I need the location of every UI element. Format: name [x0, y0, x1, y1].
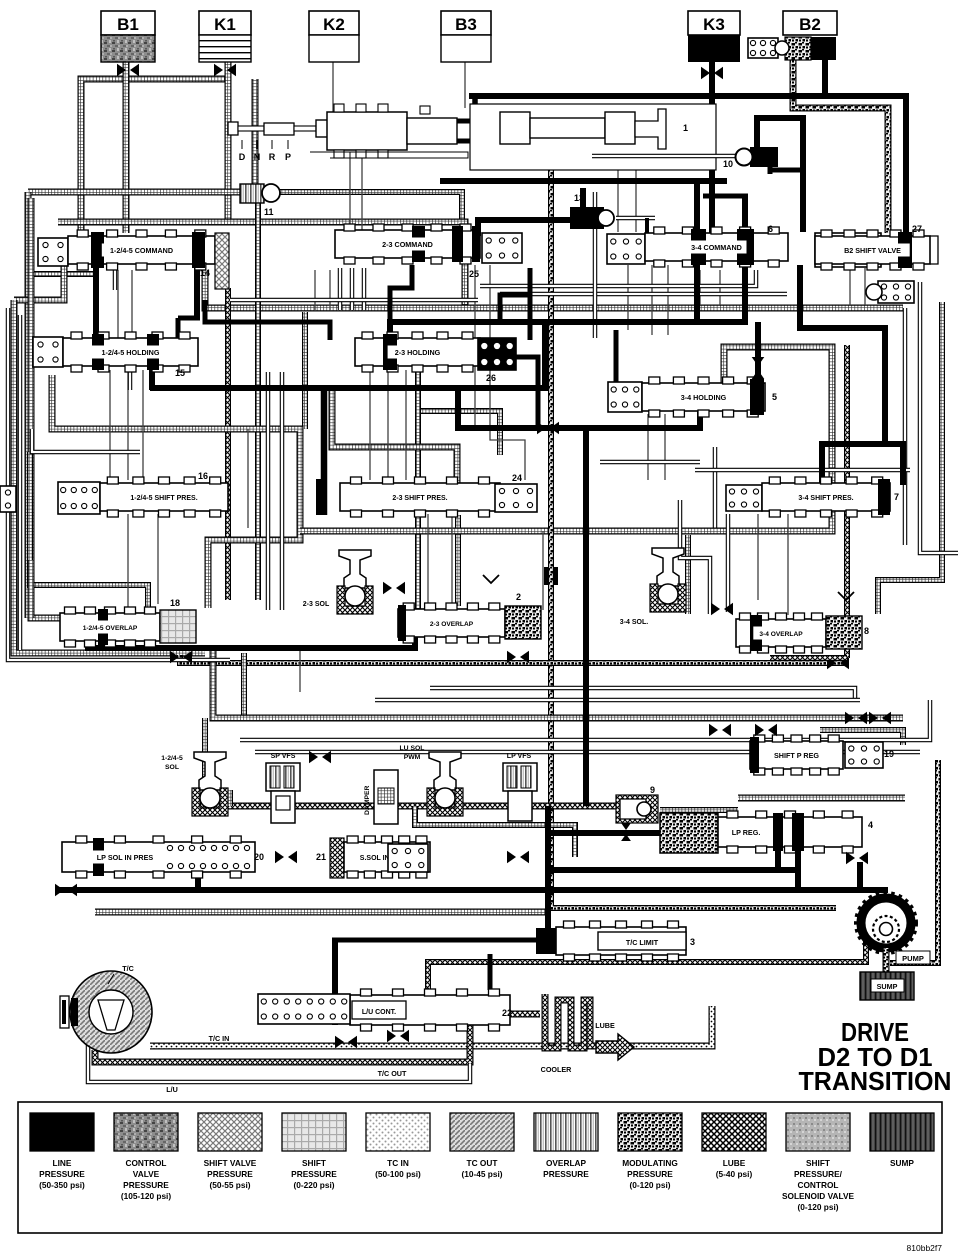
wire rope bottom y912 — [95, 909, 545, 916]
svg-text:LUBE: LUBE — [723, 1158, 746, 1168]
valve 2-3 OVERLAP 2 — [383, 575, 541, 663]
check valve 13 — [570, 193, 614, 229]
svg-text:PRESSURE: PRESSURE — [627, 1169, 673, 1179]
wire line pump vert — [857, 862, 863, 890]
valve LP SOL IN PRES 20 — [62, 836, 297, 878]
svg-text:SOL: SOL — [165, 764, 179, 771]
svg-text:3-4 SHIFT PRES.: 3-4 SHIFT PRES. — [798, 495, 853, 502]
wire line item13 up — [580, 188, 586, 207]
svg-text:3: 3 — [690, 937, 695, 947]
wire line right col — [903, 93, 909, 262]
doc number — [907, 1243, 943, 1253]
svg-text:TRANSITION: TRANSITION — [799, 1068, 952, 1096]
brake B1 — [101, 11, 155, 76]
svg-text:14: 14 — [200, 268, 210, 278]
wire line lp20 drop — [195, 846, 201, 893]
sump — [860, 972, 914, 1000]
svg-text:P: P — [285, 152, 291, 162]
solenoid SP VFS — [266, 751, 331, 823]
svg-text:1-2/4-5 COMMAND: 1-2/4-5 COMMAND — [110, 246, 173, 255]
svg-text:(5-40 psi): (5-40 psi) — [716, 1169, 753, 1179]
svg-text:CONTROL: CONTROL — [125, 1158, 166, 1168]
svg-text:DAMPER: DAMPER — [364, 785, 371, 815]
wire control-pressure x31 col — [31, 198, 60, 618]
svg-text:8: 8 — [864, 626, 869, 636]
svg-text:1-2/4-5: 1-2/4-5 — [161, 755, 183, 762]
wire line hold15 caps — [205, 300, 330, 340]
svg-text:3-4 SOL.: 3-4 SOL. — [620, 619, 648, 626]
wire line hold26-y421 — [497, 357, 538, 428]
svg-text:2-3 COMMAND: 2-3 COMMAND — [382, 240, 433, 249]
svg-text:SOLENOID VALVE: SOLENOID VALVE — [782, 1191, 855, 1201]
wire rope y806 solenoid channel — [200, 803, 640, 810]
wire line y421 run — [458, 388, 703, 431]
svg-text:SHIFT VALVE: SHIFT VALVE — [204, 1158, 257, 1168]
svg-text:2-3 OVERLAP: 2-3 OVERLAP — [430, 621, 474, 628]
svg-text:10: 10 — [723, 159, 733, 169]
wire modulating B2 drop — [793, 60, 888, 233]
svg-text:SUMP: SUMP — [877, 982, 898, 991]
svg-text:TC OUT: TC OUT — [467, 1158, 498, 1168]
svg-text:N: N — [254, 152, 261, 162]
svg-text:LP VFS: LP VFS — [507, 753, 532, 760]
solenoid LP VFS — [503, 753, 537, 821]
svg-text:VALVE: VALVE — [133, 1169, 160, 1179]
svg-text:PUMP: PUMP — [902, 954, 924, 963]
wire line hold34 left feed — [614, 330, 619, 384]
wire control-pressure y192 run — [28, 192, 462, 220]
wire control-pressure x305 col — [302, 312, 308, 429]
wire control-pressure ov18 feed — [28, 560, 35, 618]
wire control-pressure hatch col x228 — [225, 288, 231, 600]
wire tc-out — [95, 1014, 540, 1062]
wire control-pressure x14 col — [14, 252, 205, 653]
svg-text:DRIVE: DRIVE — [841, 1019, 909, 1047]
svg-text:SHIFT: SHIFT — [806, 1158, 830, 1168]
junction block x551 — [544, 567, 558, 585]
wire line cmd14 left — [93, 237, 99, 340]
wire control-pressure B1-K1 manifold — [81, 62, 255, 236]
wire line lpreg drops — [778, 851, 798, 890]
label L/U — [166, 1085, 178, 1094]
restrictor speckle y663 — [827, 657, 849, 670]
wire control-pressure x458 col — [455, 515, 461, 606]
check valve 9 — [616, 785, 658, 841]
wire line y833 lpreg — [545, 830, 660, 836]
valve 3-4 SHIFT PRES 7 — [726, 477, 899, 517]
accumulator 11 — [240, 184, 280, 217]
svg-text:18: 18 — [170, 598, 180, 608]
wire line cmd6 v3 — [797, 265, 803, 325]
label T/C IN — [209, 1034, 230, 1043]
wire line hold26 cap — [390, 265, 412, 340]
wire line y196 link — [703, 194, 748, 199]
valve LP REG 4 — [660, 811, 873, 864]
svg-text:(105-120 psi): (105-120 psi) — [121, 1191, 172, 1201]
restrictor y421 — [537, 422, 559, 435]
wire line shift16 stub — [321, 385, 328, 515]
valve 1-2/4-5 SHIFT PRES 16 — [58, 471, 326, 517]
svg-text:20: 20 — [254, 852, 264, 862]
svg-text:27: 27 — [912, 224, 922, 234]
svg-text:SHIFT P REG: SHIFT P REG — [774, 751, 819, 760]
svg-text:LU SOL: LU SOL — [400, 745, 425, 752]
wire line hold26 right feed — [500, 268, 530, 340]
svg-text:2-3 HOLDING: 2-3 HOLDING — [395, 348, 441, 357]
valve 1-2/4-5 COMMAND 14 — [38, 230, 229, 289]
valve 3-4 OVERLAP 8 — [711, 592, 891, 724]
solenoid 2-3 SOL — [303, 550, 373, 614]
svg-text:4: 4 — [868, 820, 873, 830]
svg-text:3-4 COMMAND: 3-4 COMMAND — [691, 243, 742, 252]
valve 1-2/4-5 OVERLAP 18 — [60, 598, 196, 663]
wire line y890 long — [57, 887, 888, 893]
wire control-pressure shift24 feed — [332, 385, 457, 483]
wire rope y718 long — [213, 645, 903, 718]
wire line hold15 right — [152, 233, 200, 390]
svg-text:26: 26 — [486, 373, 496, 383]
wire line y322 main — [392, 319, 748, 325]
svg-text:22: 22 — [502, 1008, 512, 1018]
svg-text:OVERLAP: OVERLAP — [546, 1158, 587, 1168]
wire line valve1 top — [469, 93, 908, 99]
svg-text:25: 25 — [469, 269, 479, 279]
svg-text:13: 13 — [574, 193, 584, 203]
svg-text:SP VFS: SP VFS — [271, 753, 296, 760]
wire lube right col x847 — [844, 345, 850, 658]
wire control-pressure y429 run — [52, 375, 300, 608]
svg-text:1-2/4-5 OVERLAP: 1-2/4-5 OVERLAP — [83, 625, 138, 632]
wire rope spreg feed — [660, 798, 905, 810]
wire line 22 right drop — [488, 954, 493, 990]
wire tc feed right — [428, 938, 866, 1000]
wire line y388 run — [150, 385, 545, 391]
svg-text:SHIFT: SHIFT — [302, 1158, 326, 1168]
svg-text:L/U CONT.: L/U CONT. — [362, 1009, 396, 1016]
connector 19b — [866, 281, 914, 303]
svg-text:6: 6 — [768, 224, 773, 234]
svg-text:2: 2 — [516, 592, 521, 602]
svg-text:K1: K1 — [214, 15, 236, 34]
wire line valve1 right — [697, 62, 712, 322]
wire thin gray bundle — [96, 62, 865, 692]
svg-text:(0-120 psi): (0-120 psi) — [797, 1202, 838, 1212]
restrictor y890 — [55, 884, 77, 897]
damper — [364, 770, 398, 824]
svg-text:B2 SHIFT VALVE: B2 SHIFT VALVE — [844, 246, 901, 255]
wire line cmd6 v2 — [647, 194, 745, 319]
connector left edge — [0, 486, 16, 512]
svg-text:9: 9 — [650, 785, 655, 795]
wire line center-bot1 — [545, 806, 551, 930]
svg-text:PRESSURE: PRESSURE — [123, 1180, 169, 1190]
title — [799, 1019, 952, 1096]
svg-text:T/C IN: T/C IN — [209, 1034, 230, 1043]
wire lu pipe — [88, 1040, 470, 1082]
svg-text:16: 16 — [198, 471, 208, 481]
clutch K1 — [199, 11, 251, 76]
svg-text:1: 1 — [683, 123, 688, 133]
svg-text:PRESSURE: PRESSURE — [291, 1169, 337, 1179]
wire control-pressure y411 — [418, 411, 500, 455]
svg-text:2-3 SOL: 2-3 SOL — [303, 601, 330, 608]
svg-text:(10-45 psi): (10-45 psi) — [461, 1169, 502, 1179]
svg-text:LP REG.: LP REG. — [732, 828, 761, 837]
svg-text:T/C: T/C — [122, 964, 134, 973]
wire control-pressure x688 col — [685, 535, 691, 614]
svg-text:D: D — [239, 152, 246, 162]
wire line lucont — [332, 938, 548, 1025]
wire control-pressure x418 col — [415, 372, 421, 630]
wire line right web — [797, 325, 905, 485]
svg-text:2-3 SHIFT PRES.: 2-3 SHIFT PRES. — [392, 495, 447, 502]
svg-text:19: 19 — [884, 749, 894, 759]
wire line center col — [583, 428, 589, 806]
wire modulating center col x551 — [551, 145, 836, 908]
legend — [18, 1102, 942, 1233]
svg-text:11: 11 — [264, 207, 274, 217]
svg-text:21: 21 — [316, 852, 326, 862]
svg-text:1-2/4-5 SHIFT PRES.: 1-2/4-5 SHIFT PRES. — [130, 495, 197, 502]
wire control-pressure left low loop — [30, 452, 148, 610]
valve B2 SHIFT VALVE 27 — [815, 224, 938, 270]
solenoid 3-4 SOL — [620, 548, 686, 626]
svg-text:K3: K3 — [703, 15, 725, 34]
wire line item13 left — [478, 220, 577, 236]
clutch K3 — [688, 11, 740, 79]
valve 2-3 SHIFT PRES 24 — [340, 473, 537, 517]
svg-text:LUBE: LUBE — [595, 1021, 615, 1030]
wire lube y658 — [770, 655, 847, 661]
svg-text:(0-220 psi): (0-220 psi) — [293, 1180, 334, 1190]
wire tc-in — [150, 1006, 712, 1046]
wire line valve1 left — [452, 99, 475, 146]
wire white-pipe bundle — [8, 192, 958, 752]
lube arrow — [595, 1021, 634, 1060]
wire control-pressure y274 stub — [31, 271, 95, 277]
valve 2-3 HOLDING 26 — [355, 332, 516, 383]
svg-text:3-4 HOLDING: 3-4 HOLDING — [681, 393, 727, 402]
svg-text:T/C OUT: T/C OUT — [378, 1069, 407, 1078]
restrictor valve1 — [480, 149, 502, 162]
valve 3-4 COMMAND 6 — [607, 224, 788, 267]
svg-text:PRESSURE/: PRESSURE/ — [794, 1169, 843, 1179]
wire control-pressure right col x942 — [878, 302, 942, 614]
svg-text:7: 7 — [894, 492, 899, 502]
svg-text:3-4 OVERLAP: 3-4 OVERLAP — [759, 631, 803, 638]
wire rope sol drops — [230, 790, 575, 857]
svg-text:CONTROL: CONTROL — [797, 1180, 838, 1190]
valve 1-2/4-5 HOLDING 15 — [33, 332, 198, 378]
svg-text:PRESSURE: PRESSURE — [543, 1169, 589, 1179]
svg-text:LINE: LINE — [53, 1158, 72, 1168]
svg-text:LP SOL IN PRES: LP SOL IN PRES — [97, 853, 154, 862]
solenoid LU SOL PWM — [400, 745, 463, 816]
gate labels DNRP — [239, 140, 291, 162]
torque converter T/C — [60, 964, 152, 1053]
svg-text:PWM: PWM — [404, 754, 421, 761]
svg-text:1-2/4-5 HOLDING: 1-2/4-5 HOLDING — [102, 348, 160, 357]
label T/C OUT — [378, 1069, 407, 1078]
wire rope y730 segment — [820, 730, 903, 745]
wire line ov18 land — [100, 640, 106, 648]
svg-text:T/C LIMIT: T/C LIMIT — [626, 938, 659, 947]
brake B2 — [783, 11, 837, 60]
wire control-pressure y533 long — [300, 347, 832, 531]
svg-text:5: 5 — [772, 392, 777, 402]
wire line hold34 right — [755, 322, 761, 383]
valve S.SOL IN P 21 — [316, 836, 529, 878]
valve 2-3 COMMAND 25 — [335, 224, 522, 279]
svg-text:SUMP: SUMP — [890, 1158, 914, 1168]
svg-text:B2: B2 — [799, 15, 821, 34]
svg-text:(50-350 psi): (50-350 psi) — [39, 1180, 85, 1190]
connector B2 sensor — [748, 38, 789, 58]
valve L/U CONT 22 — [258, 989, 512, 1048]
svg-text:K2: K2 — [323, 15, 345, 34]
wire rope channel feed — [202, 718, 208, 806]
brake B3 — [441, 11, 491, 62]
svg-text:B1: B1 — [117, 15, 139, 34]
svg-text:810bb2f7: 810bb2f7 — [907, 1243, 943, 1253]
valve SHIFT P REG 19 — [709, 724, 894, 775]
svg-text:B3: B3 — [455, 15, 477, 34]
svg-text:(50-55 psi): (50-55 psi) — [209, 1180, 250, 1190]
svg-text:(50-100 psi): (50-100 psi) — [375, 1169, 421, 1179]
svg-text:15: 15 — [175, 368, 185, 378]
wire line y870 — [545, 867, 798, 873]
wire line ov row feed — [88, 632, 415, 648]
wire line B2 drop — [822, 60, 828, 94]
check valve 10 — [592, 115, 803, 232]
svg-text:TC IN: TC IN — [387, 1158, 409, 1168]
svg-text:L/U: L/U — [166, 1085, 178, 1094]
wire control-pressure valve14 roof — [58, 222, 465, 308]
wire control-pressure left col x28 — [25, 192, 32, 618]
sump riser — [883, 948, 890, 974]
valve 3-4 HOLDING 5 — [608, 357, 777, 417]
svg-text:PRESSURE: PRESSURE — [207, 1169, 253, 1179]
svg-text:MODULATING: MODULATING — [622, 1158, 678, 1168]
wire modulating right col x938 — [890, 760, 938, 963]
solenoid 1-2/4-5 SOL — [161, 752, 228, 816]
wire modulating y663 long — [180, 655, 845, 663]
wire rope col x244 — [241, 653, 247, 718]
pump — [856, 893, 930, 964]
svg-text:(0-120 psi): (0-120 psi) — [629, 1180, 670, 1190]
svg-text:24: 24 — [512, 473, 522, 483]
svg-text:R: R — [269, 152, 276, 162]
valve T/C LIMIT 3 — [536, 921, 695, 961]
wire thin x543 drop — [542, 531, 544, 610]
clutch K2 — [309, 11, 359, 62]
svg-text:PRESSURE: PRESSURE — [39, 1169, 85, 1179]
wire pipe x715 — [713, 447, 718, 529]
manual valve 1 — [228, 104, 716, 170]
wire line x545 link — [542, 322, 548, 391]
cooler coil — [541, 994, 598, 1074]
wire control-pressure rope col x252 — [255, 203, 261, 600]
wire line valve1 bottom — [440, 178, 727, 184]
wire control-pressure y308 long — [205, 270, 903, 308]
svg-text:COOLER: COOLER — [541, 1065, 573, 1074]
